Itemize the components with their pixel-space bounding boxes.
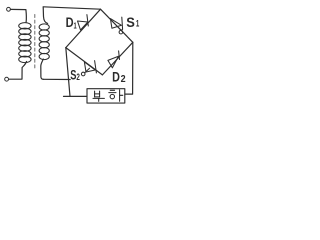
wire (bridge arm B-R, D2 arm) [102,42,132,75]
terminal T2 (primary bottom input) [5,77,9,81]
diode D1 symbol [78,15,89,30]
svg-text:D: D [66,14,74,30]
svg-text:2: 2 [76,72,80,83]
load box [87,89,125,103]
label D2 [112,69,126,85]
wire (T1 to primary coil top) [10,9,26,22]
wire (bridge arm A-R, S1 arm) [101,9,133,42]
terminal T1 (primary top input) [7,7,11,11]
wire (secondary top to bridge node A) [43,7,100,9]
transformer primary winding L1 [19,23,31,63]
thyristor S1 symbol [110,17,122,34]
wire (secondary bottom lead) [41,59,44,79]
label 하 (load text char 2) [109,90,123,102]
label D1 [66,14,77,31]
wire (node L down to load left, with junction of secondary bottom) [66,48,70,97]
wire (primary coil bottom to T2) [9,62,27,80]
wire (secondary bottom to node junction) [44,78,71,80]
svg-text:S: S [126,15,135,30]
label S1 [126,15,139,30]
wire (bridge arm A-L, D1 arm) [66,9,101,47]
thyristor S2 symbol [81,61,96,76]
wire (bridge arm L-B, S2 arm) [66,48,103,75]
wire (node R down to load right) [125,42,133,94]
diode D2 symbol [108,51,120,68]
label S2 [70,67,80,83]
svg-text:1: 1 [74,21,77,31]
wire (secondary top lead) [43,7,47,23]
wire (load left stub) [64,95,87,97]
svg-text:1: 1 [136,19,139,29]
label 부 (load text char 1) [93,91,104,101]
svg-text:2: 2 [121,73,126,85]
transformer core [34,15,36,71]
transformer secondary winding L2 [39,24,49,60]
svg-text:D: D [112,69,120,84]
